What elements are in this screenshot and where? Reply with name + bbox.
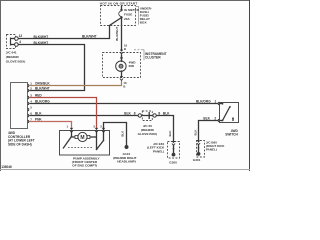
svg-text:BLK/WHT: BLK/WHT xyxy=(35,87,50,91)
svg-text:G200: G200 xyxy=(169,161,177,165)
svg-text:GLOVE BOX): GLOVE BOX) xyxy=(6,59,25,63)
svg-text:2: 2 xyxy=(214,117,216,121)
svg-text:BLK/ORG: BLK/ORG xyxy=(35,100,50,104)
svg-text:BLK/WHT: BLK/WHT xyxy=(34,35,49,39)
svg-text:(BEHIND: (BEHIND xyxy=(6,55,20,59)
svg-text:SIDE OF DASH): SIDE OF DASH) xyxy=(8,142,32,146)
svg-text:8: 8 xyxy=(158,112,160,116)
svg-text:136046: 136046 xyxy=(1,165,12,169)
svg-text:OF ENG COMPT): OF ENG COMPT) xyxy=(72,163,97,167)
svg-text:SWITCH: SWITCH xyxy=(225,133,238,137)
svg-text:PANEL): PANEL) xyxy=(206,148,217,152)
svg-text:HEADLAMP): HEADLAMP) xyxy=(117,160,136,164)
svg-text:BLK: BLK xyxy=(203,117,210,121)
svg-text:1: 1 xyxy=(214,100,216,104)
svg-text:HOT IN ON OR START: HOT IN ON OR START xyxy=(100,1,138,5)
svg-text:BLK: BLK xyxy=(168,130,172,137)
svg-text:G301: G301 xyxy=(193,158,201,162)
svg-text:8: 8 xyxy=(134,112,136,116)
svg-text:BLK: BLK xyxy=(163,112,170,116)
svg-text:PANEL): PANEL) xyxy=(153,150,164,154)
svg-text:ORG/BLK: ORG/BLK xyxy=(35,82,50,86)
svg-text:BLK/WHT: BLK/WHT xyxy=(82,35,97,39)
svg-text:BLK/WHT: BLK/WHT xyxy=(34,41,49,45)
svg-text:BLK/WHT: BLK/WHT xyxy=(115,27,119,41)
svg-text:IG METER: IG METER xyxy=(124,8,140,12)
svg-text:BLK: BLK xyxy=(193,129,197,136)
svg-text:4: 4 xyxy=(19,40,21,44)
svg-text:12: 12 xyxy=(19,34,23,38)
svg-text:BLK: BLK xyxy=(124,112,131,116)
svg-text:IND: IND xyxy=(129,64,135,68)
svg-text:CLUSTER: CLUSTER xyxy=(145,56,161,60)
svg-text:B: B xyxy=(123,85,125,89)
svg-text:RED: RED xyxy=(35,94,42,98)
svg-text:BOX: BOX xyxy=(140,20,148,24)
svg-text:FUSE: FUSE xyxy=(124,12,132,16)
svg-text:GLOVE BOX): GLOVE BOX) xyxy=(138,132,157,136)
svg-text:PNK: PNK xyxy=(35,118,42,122)
svg-text:BLK/ORG: BLK/ORG xyxy=(196,100,211,104)
svg-text:20A: 20A xyxy=(124,17,130,21)
svg-text:BLK: BLK xyxy=(35,112,42,116)
svg-text:B: B xyxy=(124,47,126,51)
svg-text:BLK: BLK xyxy=(121,130,125,137)
svg-text:M: M xyxy=(80,135,84,141)
